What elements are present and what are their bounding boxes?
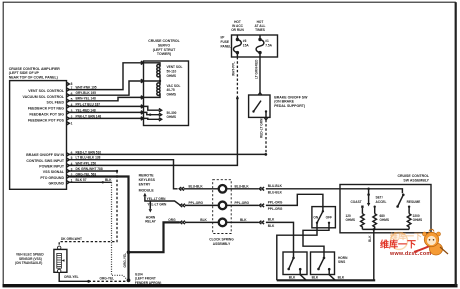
svg-text:GRY-BLK 195: GRY-BLK 195 [76,91,97,95]
off-page arrow to keyless module [143,193,146,196]
svg-text:www.dzsc.com: www.dzsc.com [389,251,431,257]
brake switch contacts and lever [252,101,267,118]
wire ORG horn feed from trunk [129,222,180,252]
fuse F6 [234,35,250,57]
on/off switch contacts [313,210,332,224]
wire BLK bottom ground bus [277,279,375,281]
svg-text:BLK: BLK [105,178,112,182]
wire BLU-BLK row A to switch assembly [184,188,340,190]
svg-text:PNK-LT GRN 148: PNK-LT GRN 148 [76,114,102,118]
clock spring coil ring row A [219,185,227,193]
node: bottom bus dot [373,228,376,231]
svg-text:OR RUN: OR RUN [231,28,244,32]
resistor R1 120 ohms [346,214,365,230]
svg-text:BRAKE ON/OFF SW IN: BRAKE ON/OFF SW IN [26,153,64,157]
svg-text:RED-LT GRN: RED-LT GRN [260,118,264,138]
svg-text:PPL-LT BLU 187: PPL-LT BLU 187 [76,102,101,106]
svg-text:TIMES: TIMES [255,28,265,32]
svg-text:VACUUM SOL CONTROL: VACUUM SOL CONTROL [23,95,65,99]
svg-text:POWER INPUT: POWER INPUT [39,164,65,168]
wire PNK-LT GRN 148 pin2 to servo pin6 [69,117,143,119]
amplifier pin chevrons bottom group pins 6..1 [67,153,70,184]
wire RED-LT GRN 510 amp pin6 row [69,153,265,155]
I/P fuse panel box [232,35,278,57]
brake on/off switch S1 label [274,95,308,108]
VSS sensor box [54,249,67,272]
resistor R3 2200 ohms [407,214,422,230]
svg-text:KEYLESS: KEYLESS [139,178,156,182]
svg-text:BLU-BLK: BLU-BLK [189,184,204,188]
svg-text:PPL-ORG: PPL-ORG [235,201,250,205]
svg-text:BLU-BLK: BLU-BLK [268,184,283,188]
svg-text:REMOTE: REMOTE [139,174,155,178]
servo pin chevrons [141,61,144,120]
svg-text:BLK 57: BLK 57 [76,178,87,182]
amplifier pin numbers top group [71,82,73,126]
wire BRN-YEL 148 pin5 to servo pin3 [69,97,143,100]
wire LT BLU-BLK 138 amp pin5 to clock spring row A [69,160,177,189]
wire resistor bottom bus [362,228,409,230]
svg-text:BLU-BLK: BLU-BLK [268,191,283,195]
wire BLK row C [185,222,294,258]
svg-text:OHMS: OHMS [380,218,390,222]
cruise control switch assembly box [340,185,431,233]
wire ON contact to ground bus [277,223,317,280]
svg-text:OHMS: OHMS [167,92,177,96]
svg-text:ORG: ORG [168,218,176,222]
connector C3 row B chevrons [259,204,264,207]
set/accel switch contact [374,196,387,214]
svg-text:RESUME: RESUME [407,200,421,204]
wire DK GRN-WHT 788 amp pin3 [69,170,117,172]
svg-text:OHMS: OHMS [167,74,177,78]
cruise control servo label [148,39,180,56]
svg-text:DK GRN-WHT: DK GRN-WHT [61,237,82,241]
clock spring coil ring row B [219,202,227,210]
connector row B chevrons [180,204,185,207]
svg-text:(LEFT STRUT: (LEFT STRUT [153,48,176,52]
svg-text:SWS: SWS [338,260,345,264]
VSS sensor bottom terminal ring [58,269,61,272]
svg-text:FEEDBACK POT POS: FEEDBACK POT POS [28,119,65,123]
off-page arrow to horn relay [149,201,151,209]
amplifier pin numbers bottom group [71,151,73,183]
svg-text:COAST: COAST [351,200,362,204]
connector C4 row C chevrons [259,221,264,224]
svg-text:FEEDBACK POT SIG: FEEDBACK POT SIG [29,113,64,117]
remote keyless entry module label [139,174,156,193]
wire WHT-PPL 256 fuse feed to amp pin4 [69,98,237,165]
svg-text:PANEL: PANEL [221,44,232,48]
svg-text:ORG-YEL: ORG-YEL [100,276,115,280]
svg-text:CRUISE CONTROL AMPLIFIER: CRUISE CONTROL AMPLIFIER [9,67,61,71]
brake switch top connector chevron [258,93,261,95]
VSS sensor coil element [57,253,65,268]
resistor R2 680 ohms [373,214,389,230]
svg-text:PPL-ORG: PPL-ORG [268,201,283,205]
svg-text:BLK: BLK [368,235,372,242]
wire BLK 57 amp pin1 [69,181,111,183]
svg-text:WHT-PNK 195: WHT-PNK 195 [76,86,97,90]
wire YEL-RED 148 pin3 to servo pin5 [69,111,143,113]
svg-text:YEL-LT GRN: YEL-LT GRN [147,197,167,201]
svg-text:GROUND: GROUND [48,181,64,185]
svg-text:15A: 15A [243,44,250,48]
VSS sensor top terminal ring [58,246,61,249]
svg-text:PPL-ORG: PPL-ORG [268,207,283,211]
svg-text:BLK: BLK [268,224,275,228]
wire GRY-BLK 195 pin6 to servo pin2 [69,81,143,95]
horn switch B contacts [317,257,335,281]
brake on/off switch S1 box [249,95,270,117]
svg-text:SERVO: SERVO [158,43,170,47]
svg-text:BLK: BLK [200,218,207,222]
vacuum solenoid coil L2 [144,81,181,97]
svg-text:CONTROL SWS INPUT: CONTROL SWS INPUT [26,159,65,163]
horn switch A box [283,252,307,275]
svg-text:OHMS: OHMS [346,218,356,222]
wire switch bus [340,189,402,193]
svg-text:LT BLU-BLK 138: LT BLU-BLK 138 [76,156,101,160]
svg-text:(ON TRANSAXLE): (ON TRANSAXLE) [15,261,42,265]
wire WHT-PNK 195 pin7 to servo pin1 [69,63,143,90]
svg-text:NEAR TOP OF COWL PANEL): NEAR TOP OF COWL PANEL) [9,76,58,80]
I/P fuse panel label [221,36,232,49]
connector C1 row A chevrons [179,187,184,190]
cruise control amplifier U1 box [10,81,67,190]
svg-text:BLK: BLK [240,218,247,222]
wire RED-LT GRN brake switch to row (dashed) [265,120,267,153]
svg-text:DK GRN-WHT 788: DK GRN-WHT 788 [76,167,103,171]
svg-text:ON: ON [313,216,318,220]
svg-text:BLK: BLK [312,275,319,279]
svg-text:RELAY: RELAY [145,220,156,224]
svg-text:PEDAL SUPPORT): PEDAL SUPPORT) [274,104,305,108]
node: splice on fuse6 feed [236,97,239,100]
svg-text:FEEDBACK POT NEG: FEEDBACK POT NEG [28,107,64,111]
hot in acc or run label [231,20,244,32]
svg-text:1: 1 [71,122,73,126]
wire BLK switch assembly ground drop [373,229,375,280]
wire WHT-PPL fuse6 down (dashed) [236,57,238,97]
wire ORG-YEL sensor to splice [59,273,88,282]
svg-text:维库一下: 维库一下 [380,239,416,250]
svg-text:FENDER APRON): FENDER APRON) [135,281,161,285]
wire LT GRN-RED fuse1 to brake switch [259,57,261,93]
svg-text:MODULE: MODULE [139,189,155,193]
svg-text:ASSEMBLY: ASSEMBLY [213,242,231,246]
clock spring assembly dashed box [213,180,232,234]
node: BLK splice [102,181,104,183]
svg-text:ORG-YEL: ORG-YEL [64,275,79,279]
watermark [380,229,448,257]
svg-text:VSS SIGNAL: VSS SIGNAL [43,170,65,174]
svg-text:WHT-PPL: WHT-PPL [232,62,236,76]
svg-text:OHMS: OHMS [413,218,423,222]
node: bus dot [367,188,370,191]
wire BLK dotted to ground G104 [112,182,128,279]
wire PPL-LT BLU 187 pin4 to servo pin4 [69,105,143,107]
amplifier internal pin function labels (bottom group) [26,153,65,185]
wire ORG-YEL 563 amp pin2 ground trunk [69,177,128,280]
svg-text:BLK: BLK [289,275,296,279]
cruise control amplifier U1 label [9,67,61,80]
brake switch bottom connector chevron [264,118,267,120]
svg-text:BLK: BLK [338,275,345,279]
svg-text:BLU-BLK: BLU-BLK [235,184,250,188]
hot at all times label [255,20,266,32]
svg-text:CRUISE CONTROL: CRUISE CONTROL [148,39,180,43]
clock spring coil ring row C [219,219,227,227]
set/accel actuator arrow [367,189,370,207]
svg-text:SW ASSEMBLY: SW ASSEMBLY [403,179,429,183]
node: brake wire junction [264,153,267,156]
wire OFF contact to horn switch B [303,223,329,258]
svg-text:OFF: OFF [326,216,332,220]
vent solenoid coil L1 [144,63,183,81]
node: VSS signal junction [116,170,118,172]
fuse F1 [256,35,273,57]
svg-text:SOL FEED: SOL FEED [47,101,65,105]
connector row C chevrons [180,221,185,224]
on/off switch S2 box [312,207,336,228]
wire PPL-ORG row B [185,194,323,211]
connector C2 row A chevrons [259,187,264,190]
horn switch B box [311,252,335,275]
svg-text:CRUISE CONTROL: CRUISE CONTROL [398,174,430,178]
feedback potentiometer R-pot [144,106,177,121]
node: ORG-YEL splice [87,280,90,283]
wire ORG-YEL dashed to G104 [89,280,127,282]
wire servo pin2 to common [144,80,160,82]
cruise control servo box [144,61,189,126]
svg-text:BRN-YEL 148: BRN-YEL 148 [76,97,97,101]
svg-text:ENTRY: ENTRY [139,183,151,187]
svg-text:VENT SOL CONTROL: VENT SOL CONTROL [28,89,65,93]
svg-text:RED-LT GRN 510: RED-LT GRN 510 [76,150,102,154]
amplifier pin chevrons top group pins 8..1 [67,82,70,125]
wire YEL-LT GRN keyless branch [145,196,181,205]
wire DK GRN-WHT dashed to VSS sensor [59,171,117,246]
svg-text:BLK: BLK [268,218,275,222]
G104 ground point [127,278,131,282]
horn switch A contacts [287,257,306,281]
svg-text:YEL-RED 148: YEL-RED 148 [76,108,96,112]
resume switch lever [396,194,420,214]
svg-text:7.5A: 7.5A [265,44,272,48]
svg-text:PTO GROUND: PTO GROUND [40,176,64,180]
svg-text:(LEFT SIDE OF I/P: (LEFT SIDE OF I/P [9,71,40,75]
node: solenoid common junction [159,80,161,82]
svg-text:LT GRN-RED: LT GRN-RED [254,59,258,79]
svg-text:PPL-ORG: PPL-ORG [189,201,204,205]
svg-text:ORG-YEL 563: ORG-YEL 563 [76,172,97,176]
svg-text:WHT-PPL 256: WHT-PPL 256 [76,161,97,165]
svg-text:TOWER): TOWER) [157,52,171,56]
svg-text:ACCEL: ACCEL [376,200,387,204]
coast switch contact [351,200,364,214]
amplifier internal pin function labels (top group) [23,89,65,122]
svg-text:OHMS: OHMS [167,115,177,119]
svg-text:ORG-YEL: ORG-YEL [123,253,127,268]
VSS sensor label [15,253,44,266]
